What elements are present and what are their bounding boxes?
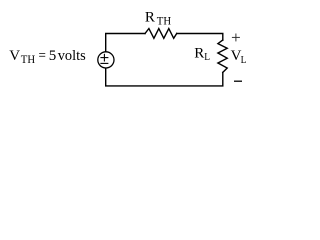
svg-text:R: R: [145, 10, 155, 26]
svg-text:L: L: [241, 54, 247, 66]
svg-text:R: R: [194, 45, 204, 61]
svg-text:5: 5: [49, 48, 57, 64]
svg-text:L: L: [204, 51, 210, 63]
svg-text:=: =: [39, 48, 46, 64]
svg-text:TH: TH: [157, 14, 172, 28]
svg-text:volts: volts: [58, 48, 86, 64]
svg-text:V: V: [9, 48, 20, 64]
svg-text:TH: TH: [21, 52, 36, 66]
